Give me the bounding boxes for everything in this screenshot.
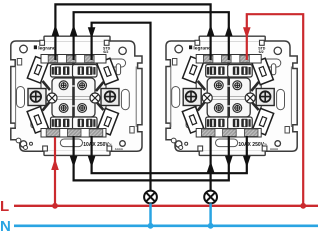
svg-text:L: L [0, 198, 9, 215]
wire lamp E2 feed (SW2 bottom1 to lamp E2) [210, 136, 212, 191]
neutral drop lamp E1 [149, 203, 152, 225]
L line [14, 205, 318, 207]
wire F (SW1 bottom3 to SW2 bottom3) [92, 136, 247, 173]
junction dot blue E1 [148, 223, 154, 229]
neutral drop lamp E2 [209, 203, 212, 225]
wire E (SW1 bottom2 to SW2 bottom2) [74, 136, 229, 180]
arrowhead F2 [243, 156, 251, 168]
N line [14, 225, 318, 228]
svg-text:N: N [0, 218, 11, 234]
junction dot red right [300, 203, 306, 209]
switch SW1 [11, 36, 142, 155]
arrowhead F1 [88, 156, 96, 168]
arrowhead B1 [70, 25, 78, 37]
arrowhead B2 [225, 25, 233, 37]
arrowhead D red [243, 27, 251, 39]
wire C (SW1 top3 to lamp E1) [92, 23, 151, 191]
junction dot red left [52, 203, 58, 209]
arrowhead A1 [52, 25, 60, 37]
wire traveler A (SW1 top1 to SW2 top1) [55, 4, 210, 60]
arrowhead A2 [207, 25, 215, 37]
switch SW2 [166, 36, 297, 155]
arrowhead C [88, 27, 96, 39]
junction dot blue E2 [208, 223, 214, 229]
wire traveler B (SW1 top2 to SW2 top2) [74, 12, 229, 60]
arrowhead E2 [225, 156, 233, 168]
arrowhead lamp2 up [207, 161, 215, 173]
lamp E1 [144, 191, 157, 204]
lamp E2 [204, 191, 217, 204]
wire L feed red (L line to SW1 bottom1) [54, 137, 56, 206]
arrowhead E1 [70, 156, 78, 168]
wire L feed red (SW2 top3 to L line) [247, 14, 303, 206]
arrowhead red up [51, 159, 59, 171]
